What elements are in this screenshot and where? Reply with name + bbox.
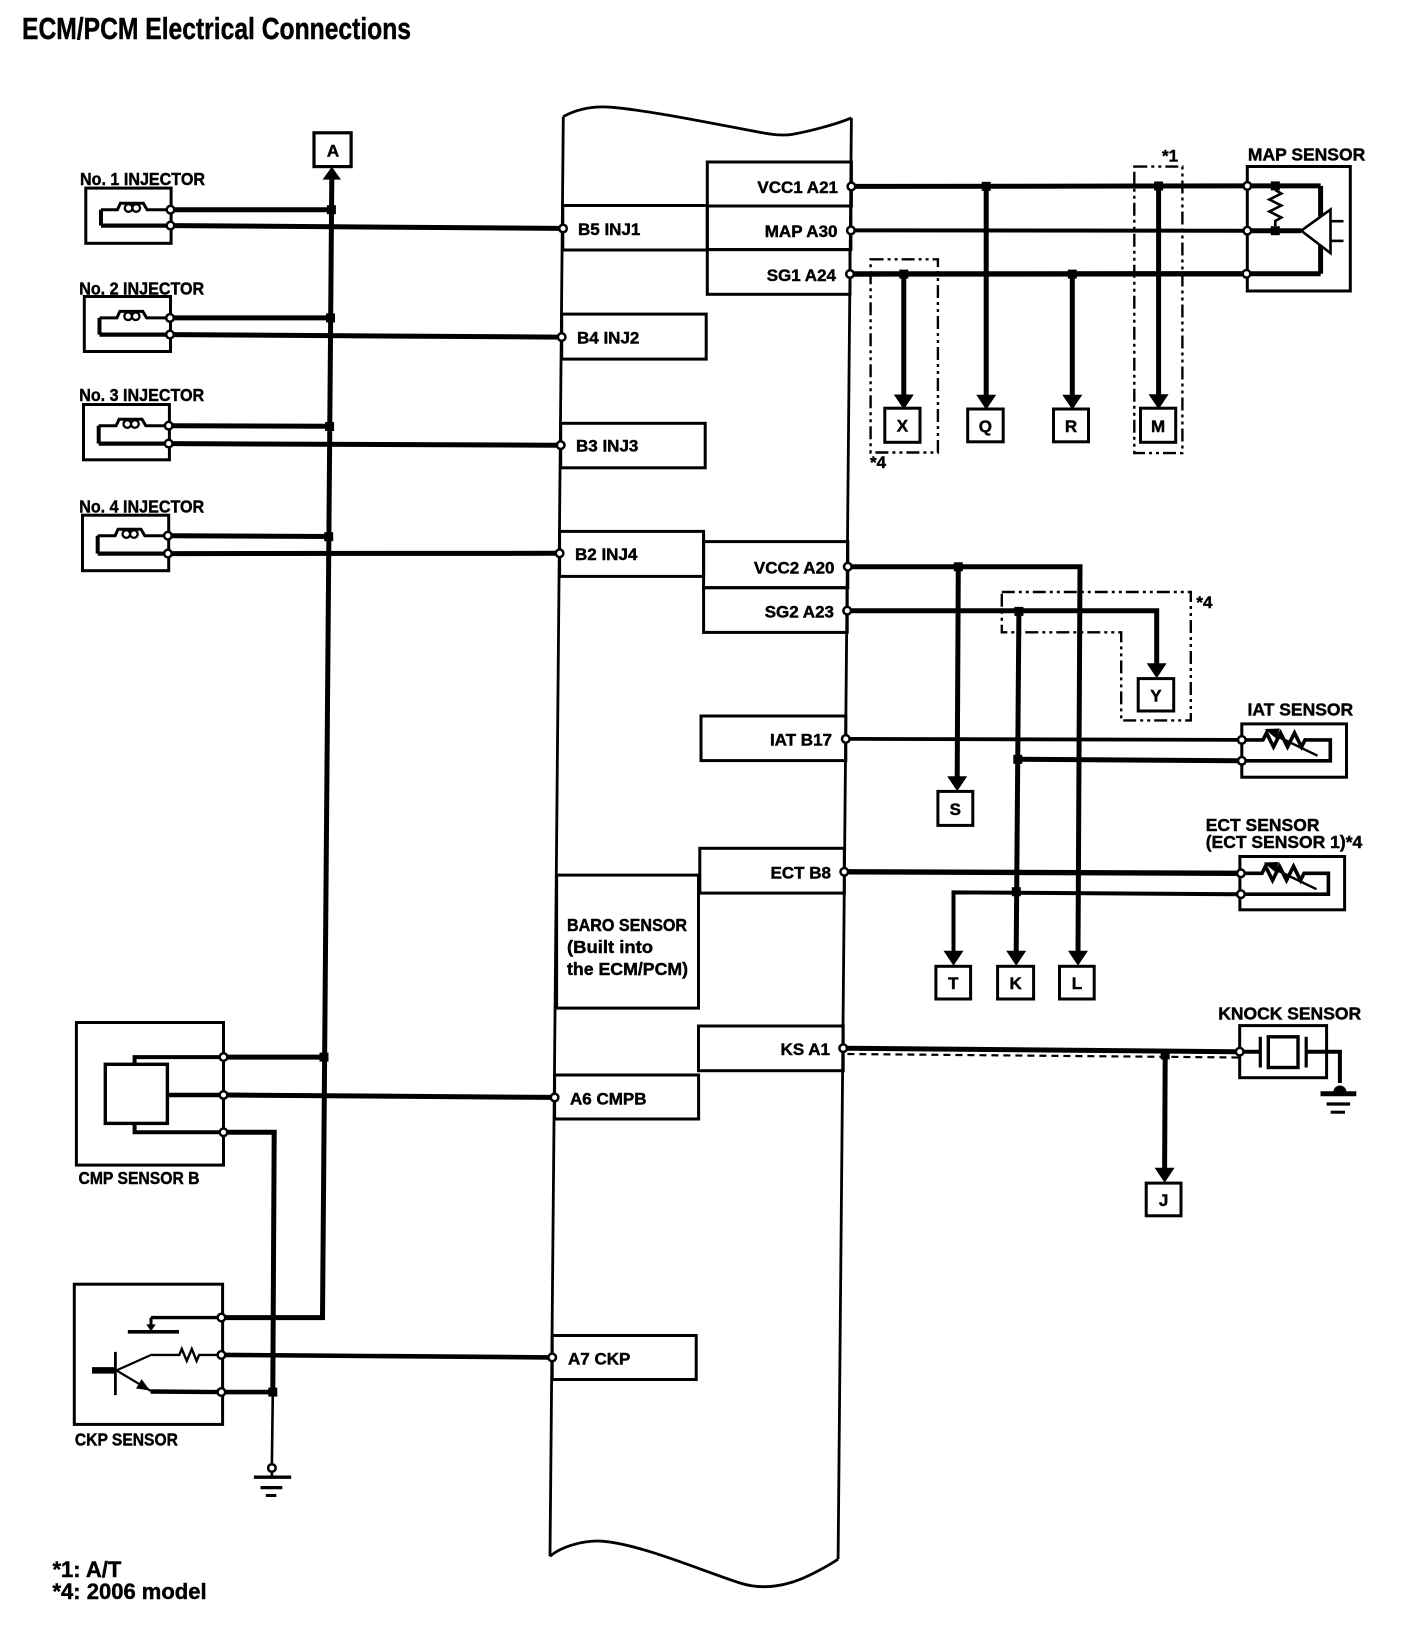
dash-dot box *4 around X branch <box>871 259 938 452</box>
node: junction SG1/X <box>899 270 908 279</box>
node: bus junction at No.4 injector <box>324 532 333 541</box>
wire: No.2 injector pin1 to A bus <box>174 315 331 320</box>
knock sensor label <box>1218 1004 1361 1024</box>
pin box B5 INJ1 <box>563 206 708 251</box>
connector box A <box>314 133 351 167</box>
pin box B4 INJ2 <box>562 314 707 359</box>
label *4 (X branch) <box>870 453 887 472</box>
svg-text:T: T <box>948 974 959 993</box>
terminal VCC1 A21 <box>848 183 856 191</box>
svg-text:IAT B17: IAT B17 <box>770 731 832 750</box>
IAT sensor body (thermistor) <box>1242 724 1347 777</box>
pin box B2 INJ4 <box>560 531 704 576</box>
ECM/PCM body wavy top edge <box>563 107 851 135</box>
dash-dot box *1 around M branch <box>1134 167 1182 454</box>
wire: ECT sensor low pin left then down to T <box>954 892 1237 953</box>
pin box A7 CKP <box>552 1336 696 1380</box>
svg-text:No. 3 INJECTOR: No. 3 INJECTOR <box>79 385 204 405</box>
CMP sensor B label <box>79 1168 200 1188</box>
terminal: CMP pin 1 <box>220 1053 228 1061</box>
terminal: No.3 injector pin 1 <box>165 422 173 430</box>
connector box R <box>1054 409 1089 442</box>
terminal: CMP pin 3 <box>220 1129 228 1137</box>
MAP sensor label <box>1248 145 1366 165</box>
connector box X <box>885 408 920 442</box>
node: junction VCC2/S <box>954 562 963 571</box>
arrow into M <box>1149 394 1169 409</box>
wire: No.4 injector pin2 to B2 INJ4 <box>172 551 555 556</box>
ECM/PCM body outline left edge <box>550 117 563 1557</box>
terminal IAT B17 <box>842 735 850 743</box>
pin box KS A1 <box>699 1026 844 1071</box>
node: junction SG1/R <box>1068 270 1077 279</box>
node: bus junction at No.1 injector <box>327 205 336 214</box>
arrow into Q <box>976 395 996 410</box>
wire: R branch vertical <box>1070 274 1075 397</box>
svg-text:ECT B8: ECT B8 <box>771 864 831 883</box>
footnote *4 <box>53 1579 207 1604</box>
svg-text:CMP SENSOR B: CMP SENSOR B <box>79 1168 200 1188</box>
terminal MAP A30 <box>847 227 855 235</box>
terminal B2 INJ4 <box>556 550 564 558</box>
wire: CKP pin1 to A bus corner <box>226 1315 325 1320</box>
svg-text:(ECT SENSOR 1)*4: (ECT SENSOR 1)*4 <box>1206 832 1363 852</box>
BARO sensor block (built into ECM/PCM) <box>557 875 699 1008</box>
wire: SG2 A23 right then down to Y <box>851 611 1156 666</box>
terminal A6 CMPB <box>551 1094 559 1102</box>
CKP sensor label <box>75 1430 178 1450</box>
terminal: No.2 injector pin 1 <box>166 314 174 322</box>
wire: No.4 injector pin1 to A bus <box>172 533 329 539</box>
terminal: ECT sensor pin 2 <box>1237 890 1245 898</box>
node: junction CMP/CKP ground <box>268 1388 277 1397</box>
svg-text:No. 1 INJECTOR: No. 1 INJECTOR <box>80 169 205 189</box>
node: junction VCC1/M <box>1154 182 1163 191</box>
terminal SG1 A24 <box>846 270 854 278</box>
wire: CMP pin3 down to CKP ground junction <box>228 1132 275 1392</box>
svg-text:VCC2 A20: VCC2 A20 <box>754 559 835 578</box>
node: junction K/IAT low <box>1013 755 1022 764</box>
svg-text:KNOCK SENSOR: KNOCK SENSOR <box>1218 1004 1361 1024</box>
terminal KS A1 <box>839 1044 847 1052</box>
svg-text:*4: 2006 model: *4: 2006 model <box>53 1579 207 1604</box>
wire: KS shield (dashed) <box>847 1054 1239 1058</box>
arrow into S <box>947 776 967 791</box>
svg-text:A: A <box>327 142 339 161</box>
arrow into R <box>1062 395 1082 410</box>
knock sensor body <box>1240 1026 1340 1083</box>
wire: IAT B17 to IAT sensor <box>850 739 1238 740</box>
wire: CMP pin1 to A bus <box>228 1055 324 1060</box>
node: junction SG2/K <box>1014 607 1023 616</box>
wire: IAT sensor low pin to K branch junction <box>1018 759 1237 761</box>
arrow into T <box>944 951 964 966</box>
svg-text:J: J <box>1159 1191 1168 1210</box>
wire: ECT B8 to ECT sensor <box>849 872 1237 874</box>
CMP sensor B body <box>76 1023 223 1166</box>
CKP sensor body <box>74 1284 222 1424</box>
wire: No.2 injector pin2 to B4 INJ2 <box>174 335 557 338</box>
terminal: No.1 injector pin 2 <box>167 222 175 230</box>
No. 2 injector label <box>79 279 204 299</box>
wire: X branch vertical <box>901 274 906 396</box>
wire: CKP pin2 to A7 CKP <box>226 1355 548 1358</box>
arrow into Y <box>1147 663 1167 678</box>
node: bus junction at CMP sensor B <box>320 1053 329 1062</box>
svg-text:No. 4 INJECTOR: No. 4 INJECTOR <box>79 496 204 516</box>
No. 2 injector body <box>84 297 170 352</box>
terminal: ground circle <box>268 1464 276 1472</box>
ground symbol <box>254 1472 291 1495</box>
svg-text:A6 CMPB: A6 CMPB <box>570 1090 647 1109</box>
svg-text:BARO SENSOR: BARO SENSOR <box>567 915 687 935</box>
svg-text:K: K <box>1009 974 1022 993</box>
terminal VCC2 A20 <box>844 563 852 571</box>
svg-text:ECM/PCM Electrical Connections: ECM/PCM Electrical Connections <box>22 11 411 46</box>
wire: J branch vertical <box>1162 1055 1168 1170</box>
pin box A6 CMPB <box>555 1075 699 1119</box>
svg-text:B3 INJ3: B3 INJ3 <box>576 437 638 456</box>
terminal B5 INJ1 <box>559 225 567 233</box>
terminal: No.4 injector pin 2 <box>164 550 172 558</box>
terminal: ECT sensor pin 1 <box>1237 870 1245 878</box>
No. 1 injector label <box>80 169 205 189</box>
connector box L <box>1060 966 1095 999</box>
pin box VCC1 A21 <box>707 162 851 206</box>
svg-text:M: M <box>1151 417 1165 436</box>
terminal: MAP sensor SG1 pin <box>1243 270 1251 278</box>
terminal: MAP sensor MAP pin <box>1244 227 1252 235</box>
node: junction shield/J <box>1161 1050 1170 1059</box>
terminal: CMP pin 2 <box>220 1091 228 1099</box>
ECT sensor body (thermistor) <box>1240 857 1345 910</box>
IAT sensor label <box>1248 700 1354 720</box>
wire: Q branch vertical <box>984 186 989 397</box>
terminal: knock sensor pin <box>1236 1048 1244 1056</box>
terminal ECT B8 <box>841 868 849 876</box>
terminal A7 CKP <box>548 1354 556 1362</box>
svg-text:SG1 A24: SG1 A24 <box>767 266 837 285</box>
arrow up into A <box>323 167 341 180</box>
svg-text:*4: *4 <box>870 453 887 472</box>
terminal: No.1 injector pin 1 <box>167 206 175 214</box>
svg-text:B4 INJ2: B4 INJ2 <box>577 329 639 348</box>
knock sensor ground <box>1321 1086 1357 1113</box>
terminal: MAP sensor VCC1 pin <box>1244 182 1252 190</box>
wire: ground drop <box>271 1392 274 1464</box>
svg-text:X: X <box>897 417 909 436</box>
wire: M branch vertical <box>1156 186 1161 396</box>
arrow into K <box>1006 951 1026 966</box>
svg-text:*4: *4 <box>1196 593 1213 612</box>
node: bus junction at No.3 injector <box>325 422 334 431</box>
svg-text:MAP A30: MAP A30 <box>765 222 838 241</box>
terminal: IAT sensor pin 2 <box>1238 757 1246 765</box>
No. 3 injector body <box>84 405 170 460</box>
arrow into J <box>1155 1168 1175 1183</box>
label *1 <box>1162 147 1178 166</box>
terminal: CKP pin 2 <box>218 1351 226 1359</box>
node: bus junction at No.2 injector <box>326 313 335 322</box>
terminal: No.2 injector pin 2 <box>166 331 174 339</box>
connector box K <box>998 966 1034 999</box>
wire: VCC2 A20 right then down to L <box>852 567 1080 953</box>
svg-text:*1: *1 <box>1162 147 1178 166</box>
wire: KS A1 to knock sensor <box>847 1048 1235 1052</box>
terminal B3 INJ3 <box>557 441 565 449</box>
wire: No.3 injector pin2 to B3 INJ3 <box>173 444 557 446</box>
wire: MAP A30 to MAP sensor <box>855 228 1243 232</box>
No. 4 injector label <box>79 496 204 516</box>
terminal: CKP pin 1 <box>218 1314 226 1322</box>
wire: CMP pin2 to A6 CMPB <box>228 1095 551 1097</box>
MAP sensor body <box>1247 167 1350 292</box>
No. 3 injector label <box>79 385 204 405</box>
dash-dot region *4 around Y branch <box>1002 592 1191 720</box>
ECM/PCM body outline right edge <box>838 118 851 1559</box>
wire: No.1 injector pin2 to B5 INJ1 <box>175 226 559 229</box>
svg-text:the ECM/PCM): the ECM/PCM) <box>567 959 688 979</box>
pin box SG1 A24 <box>707 250 850 295</box>
svg-text:R: R <box>1065 417 1077 436</box>
connector box T <box>936 966 971 999</box>
svg-text:Q: Q <box>979 417 992 436</box>
arrow into X <box>894 395 914 410</box>
terminal SG2 A23 <box>843 607 851 615</box>
svg-text:IAT SENSOR: IAT SENSOR <box>1248 700 1354 720</box>
wire: No.3 injector pin1 to A bus <box>173 423 330 429</box>
wire: A bus vertical (injector/CMP/CKP power feed) <box>323 178 332 1318</box>
svg-text:SG2 A23: SG2 A23 <box>765 603 834 622</box>
svg-text:S: S <box>950 800 961 819</box>
wire: VCC1 A21 to MAP sensor <box>856 183 1244 189</box>
pin box MAP A30 <box>707 206 851 250</box>
pin box SG2 A23 <box>704 588 848 633</box>
node: junction VCC1/Q <box>982 182 991 191</box>
svg-text:A7 CKP: A7 CKP <box>568 1350 630 1369</box>
terminal: No.3 injector pin 2 <box>165 440 173 448</box>
footnote *1 <box>53 1557 122 1582</box>
svg-text:CKP SENSOR: CKP SENSOR <box>75 1430 178 1450</box>
No. 1 injector body <box>86 188 171 243</box>
wire: CKP pin3 to ground junction <box>226 1390 273 1395</box>
svg-text:VCC1 A21: VCC1 A21 <box>757 178 838 197</box>
svg-text:KS A1: KS A1 <box>781 1040 830 1059</box>
svg-text:B5 INJ1: B5 INJ1 <box>578 220 640 239</box>
wire: SG1 A24 to MAP sensor <box>854 271 1242 277</box>
wire: K branch vertical <box>1016 611 1019 952</box>
wire: S branch vertical <box>957 567 958 779</box>
pin box ECT B8 <box>700 848 845 893</box>
node: junction K/ECT low <box>1012 887 1021 896</box>
arrow into L <box>1068 951 1088 966</box>
connector box Y <box>1138 679 1174 711</box>
label *4 (Y branch) <box>1196 593 1213 612</box>
terminal: No.4 injector pin 1 <box>164 532 172 540</box>
svg-text:Y: Y <box>1150 687 1162 706</box>
connector box S <box>938 791 973 825</box>
connector box M <box>1141 408 1176 442</box>
pin box VCC2 A20 <box>704 542 848 588</box>
terminal: CKP pin 3 <box>218 1388 226 1396</box>
svg-text:B2 INJ4: B2 INJ4 <box>575 545 638 564</box>
terminal B4 INJ2 <box>558 333 566 341</box>
terminal: IAT sensor pin 1 <box>1238 736 1246 744</box>
ECM/PCM body wavy bottom edge <box>550 1541 838 1587</box>
pin box B3 INJ3 <box>561 423 706 468</box>
ECT sensor label <box>1206 815 1363 852</box>
connector box J <box>1146 1183 1181 1216</box>
svg-text:L: L <box>1072 974 1082 993</box>
svg-text:(Built into: (Built into <box>567 937 653 957</box>
pin box IAT B17 <box>701 716 846 761</box>
title: ECM/PCM Electrical Connections <box>22 11 411 46</box>
svg-text:MAP SENSOR: MAP SENSOR <box>1248 145 1366 165</box>
No. 4 injector body <box>83 515 169 571</box>
wire: No.1 injector pin1 to A bus <box>175 207 332 212</box>
connector box Q <box>968 409 1004 442</box>
